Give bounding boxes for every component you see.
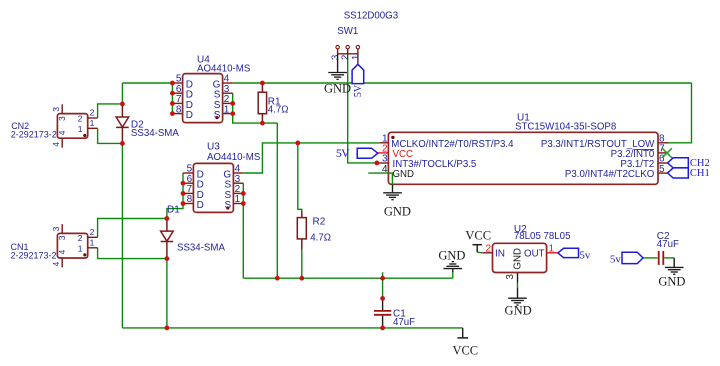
port CH1 at U1 pin5 bbox=[668, 168, 689, 178]
svg-text:1: 1 bbox=[350, 55, 361, 60]
svg-text:47uF: 47uF bbox=[393, 317, 415, 328]
junction bbox=[181, 191, 186, 196]
svg-text:AO4410-MS: AO4410-MS bbox=[197, 63, 251, 74]
power port VCC at U2 input bbox=[473, 244, 482, 246]
junction bbox=[380, 296, 385, 301]
svg-text:STC15W104-35I-SOP8: STC15W104-35I-SOP8 bbox=[515, 121, 616, 132]
svg-text:5: 5 bbox=[659, 164, 665, 175]
wire SW1 pin2 to U1 pin3 bbox=[348, 54, 377, 163]
diode D1 SS34-SMA bbox=[166, 219, 168, 232]
power port 5V at SW1 pin1 bbox=[352, 64, 364, 83]
ground symbol below U1 pin4 bbox=[392, 185, 394, 193]
no-connect cross at U1 pin7 bbox=[662, 148, 672, 158]
svg-text:3: 3 bbox=[51, 107, 61, 112]
svg-text:1: 1 bbox=[235, 194, 241, 205]
svg-text:D: D bbox=[197, 200, 204, 211]
svg-text:2-292173-2: 2-292173-2 bbox=[11, 130, 57, 140]
wire stub above C1 junction bbox=[382, 272, 384, 278]
wire U4 gate row 5V net horizontal bbox=[233, 82, 692, 84]
wire U3 pin8 to D1 anode node bbox=[167, 204, 183, 219]
wire U4 source net down to GND bus bbox=[276, 123, 278, 278]
wire U3 D-pins common vertical bbox=[182, 173, 184, 204]
svg-text:S: S bbox=[214, 110, 221, 121]
junction bbox=[260, 121, 265, 126]
svg-text:78L05 78L05: 78L05 78L05 bbox=[514, 231, 571, 242]
svg-text:U3: U3 bbox=[207, 141, 220, 152]
junction bbox=[241, 191, 246, 196]
mosfet U4 body and pins bbox=[172, 82, 182, 84]
svg-text:IN: IN bbox=[495, 249, 505, 260]
power port 5V at U1 pin2 bbox=[357, 148, 378, 158]
svg-text:4.7Ω: 4.7Ω bbox=[310, 233, 331, 244]
wire bottom VCC bus bbox=[122, 327, 462, 329]
wire C2 right to ground bbox=[664, 257, 674, 259]
junction bbox=[230, 101, 235, 106]
svg-text:3: 3 bbox=[51, 226, 61, 231]
port CH2 at U1 pin6 bbox=[668, 158, 689, 168]
svg-text:GND: GND bbox=[324, 82, 351, 96]
svg-text:5V: 5V bbox=[353, 84, 364, 97]
svg-text:1: 1 bbox=[90, 118, 95, 128]
svg-text:5V: 5V bbox=[336, 146, 350, 160]
wire middle GND bus bbox=[243, 277, 452, 279]
ground symbol at U2 pin3 bbox=[517, 288, 519, 299]
mosfet U3 body and pins bbox=[183, 172, 193, 174]
wire CN2 pin1 to D2 cathode bbox=[98, 128, 123, 143]
svg-text:47uF: 47uF bbox=[657, 239, 679, 250]
svg-text:1: 1 bbox=[78, 243, 83, 253]
svg-text:GND: GND bbox=[384, 205, 411, 219]
port 5v at C2 bbox=[622, 252, 643, 263]
junction bbox=[380, 276, 385, 281]
svg-text:2: 2 bbox=[90, 108, 95, 118]
svg-text:SS12D00G3: SS12D00G3 bbox=[344, 11, 398, 22]
wire D1 cathode down to VCC bus bbox=[166, 259, 168, 328]
svg-text:1: 1 bbox=[78, 124, 83, 134]
wire gate net branch to R2 bbox=[298, 143, 302, 212]
svg-text:8: 8 bbox=[176, 104, 182, 115]
svg-text:SS34-SMA: SS34-SMA bbox=[177, 242, 225, 253]
ground symbol at middle bus bbox=[452, 269, 454, 273]
junction bbox=[165, 216, 170, 221]
svg-text:VCC: VCC bbox=[465, 228, 491, 242]
wire CN1 pin2 to D1 anode bbox=[98, 219, 167, 238]
junction bbox=[181, 181, 186, 186]
wire VCC column left vertical bbox=[121, 143, 123, 328]
diode D2 SS34-SMA bbox=[121, 104, 123, 117]
svg-text:CH1: CH1 bbox=[690, 168, 710, 179]
wire U3 source pins down to GND bus bbox=[242, 183, 244, 278]
svg-text:S: S bbox=[225, 200, 232, 211]
junction bbox=[120, 141, 125, 146]
svg-text:8: 8 bbox=[187, 194, 193, 205]
svg-text:4: 4 bbox=[51, 142, 61, 147]
svg-text:3: 3 bbox=[505, 274, 516, 280]
wire U1 pin4 to ground bbox=[368, 173, 392, 185]
svg-text:P3.0/INT4#/T2CLKO: P3.0/INT4#/T2CLKO bbox=[565, 169, 655, 180]
junction bbox=[275, 276, 280, 281]
resistor R1 bbox=[261, 83, 263, 92]
capacitor C1 47uF bbox=[382, 298, 384, 310]
svg-text:AO4410-MS: AO4410-MS bbox=[207, 152, 261, 163]
svg-text:2: 2 bbox=[78, 114, 83, 124]
junction bbox=[260, 81, 265, 86]
ground symbol at C2 bbox=[673, 258, 675, 268]
junction bbox=[375, 161, 380, 166]
svg-text:1: 1 bbox=[90, 237, 95, 247]
junction bbox=[165, 256, 170, 261]
mcu U1 body and pins bbox=[380, 142, 389, 144]
junction bbox=[170, 111, 175, 116]
junction bbox=[299, 276, 304, 281]
svg-text:GND: GND bbox=[505, 303, 532, 317]
svg-text:4: 4 bbox=[57, 130, 67, 135]
wire U2 pin3 segment bbox=[517, 283, 519, 288]
connector CN1 2-292173-2 bbox=[57, 233, 87, 258]
svg-text:VCC: VCC bbox=[452, 343, 478, 357]
wire U2 input from VCC port bbox=[477, 251, 482, 254]
wire U4 D-pins common vertical bbox=[171, 83, 173, 114]
svg-text:5v: 5v bbox=[579, 249, 591, 261]
wire right edge down to U1 pin8 bbox=[667, 83, 692, 143]
wire U4 source pins common to R1 bottom bbox=[233, 93, 278, 123]
junction bbox=[380, 326, 385, 331]
svg-text:2: 2 bbox=[78, 233, 83, 243]
svg-text:4: 4 bbox=[57, 250, 67, 255]
svg-text:3: 3 bbox=[57, 116, 67, 121]
regulator U2 78L05 bbox=[482, 252, 492, 254]
svg-text:4: 4 bbox=[51, 262, 61, 267]
svg-text:OUT: OUT bbox=[524, 249, 545, 260]
wire C1 top branch bbox=[382, 278, 384, 298]
svg-text:GND: GND bbox=[393, 169, 415, 180]
junction bbox=[230, 111, 235, 116]
wire CN2 pin2 to D2 anode bbox=[98, 104, 123, 118]
svg-text:D1: D1 bbox=[167, 204, 180, 215]
svg-text:1: 1 bbox=[224, 104, 230, 115]
svg-text:4.7Ω: 4.7Ω bbox=[268, 104, 289, 115]
svg-text:D: D bbox=[186, 110, 193, 121]
wire U3 gate to U1 pin1 bbox=[243, 143, 379, 173]
wire top-left horizontal to U4 pin5 bbox=[122, 82, 172, 84]
svg-text:5v: 5v bbox=[610, 253, 622, 265]
svg-text:SW1: SW1 bbox=[337, 26, 358, 37]
wire 5v port to C2 left bbox=[643, 257, 658, 259]
junction bbox=[241, 201, 246, 206]
junction bbox=[181, 201, 186, 206]
ground symbol at SW1 pin3 bbox=[337, 54, 339, 73]
svg-text:GND: GND bbox=[513, 248, 524, 270]
junction bbox=[170, 91, 175, 96]
junction bbox=[120, 102, 125, 107]
svg-text:GND: GND bbox=[438, 249, 465, 263]
svg-text:GND: GND bbox=[658, 275, 685, 289]
svg-text:3: 3 bbox=[57, 235, 67, 240]
power port VCC at bottom bus bbox=[462, 328, 464, 338]
junction bbox=[295, 141, 300, 146]
junction bbox=[170, 81, 175, 86]
svg-text:2: 2 bbox=[485, 243, 491, 254]
port 5v at U2 output bbox=[558, 248, 579, 257]
connector CN2 2-292173-2 bbox=[57, 114, 87, 139]
svg-text:2: 2 bbox=[90, 227, 95, 237]
junction bbox=[170, 101, 175, 106]
resistor R2 bbox=[301, 212, 303, 218]
svg-text:SS34-SMA: SS34-SMA bbox=[131, 128, 179, 139]
svg-text:2-292173-2: 2-292173-2 bbox=[11, 250, 57, 260]
svg-text:R2: R2 bbox=[313, 216, 326, 227]
svg-text:1: 1 bbox=[549, 243, 555, 254]
junction bbox=[165, 326, 170, 331]
wire CN1 pin1 to D1 cathode bbox=[98, 248, 167, 259]
capacitor C2 47uF bbox=[658, 251, 660, 265]
wire GND bus to ground symbol bbox=[452, 272, 454, 278]
wire D2 anode column up bbox=[121, 83, 123, 104]
switch SW1 SS12D00G3 bbox=[336, 45, 339, 48]
wire R2 bottom to GND bus bbox=[301, 250, 303, 278]
